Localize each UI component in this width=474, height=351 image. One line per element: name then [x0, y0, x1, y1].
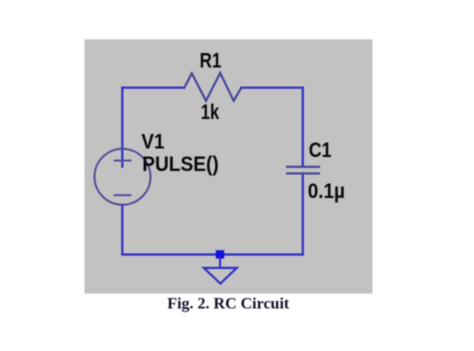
wire top horizontal right: [241, 87, 302, 89]
svg-text:C1: C1: [309, 139, 332, 162]
capacitor C1: [287, 167, 319, 174]
voltage source V1: [95, 149, 151, 205]
junction node: [216, 250, 224, 258]
wire top-left vertical: [121, 88, 123, 167]
svg-text:0.1µ: 0.1µ: [308, 180, 345, 203]
svg-text:Fig. 2. RC Circuit: Fig. 2. RC Circuit: [167, 296, 290, 313]
ground: [204, 259, 237, 284]
svg-text:PULSE(): PULSE(): [142, 153, 219, 176]
wire right vertical lower: [302, 173, 304, 254]
wire bottom-left vertical: [121, 205, 123, 255]
svg-text:V1: V1: [141, 131, 164, 154]
svg-text:1k: 1k: [201, 101, 220, 124]
resistor R1: [184, 73, 241, 101]
svg-text:R1: R1: [200, 49, 222, 72]
wire top horizontal left: [122, 87, 184, 89]
wire right vertical upper: [302, 88, 304, 167]
wire bottom horizontal: [122, 253, 302, 255]
